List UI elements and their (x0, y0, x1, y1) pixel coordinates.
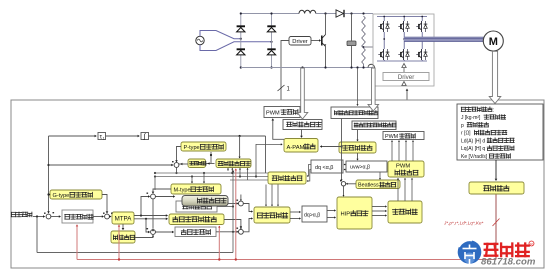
transistor Q3b (403, 49, 405, 60)
wire AC source to bridge (taper bus) (200, 31, 241, 39)
block HIP modulation (337, 197, 372, 229)
watermark logo circle (458, 240, 482, 264)
svg-text:A-PAM: A-PAM (287, 145, 305, 151)
resistor R1 R2 divider (362, 16, 366, 64)
block low pass filter (268, 172, 306, 184)
block PWM phase shift compensation (388, 161, 424, 177)
node beat sum (341, 182, 345, 186)
block DC bus current detection (352, 121, 396, 130)
svg-text:J*,p*,r*,Ld*,Lq*,Ke*: J*,p*,r*,Ld*,Lq*,Ke* (443, 221, 484, 226)
block MTPA (112, 212, 134, 224)
block dq to alpha-beta (302, 206, 327, 222)
arrow rail to DC volt detect (368, 68, 379, 111)
wire M-type to sum4 (153, 189, 171, 193)
svg-text:G-type: G-type (53, 193, 70, 199)
wire MTPA outputs (134, 215, 167, 217)
wire weakening to sum5 (135, 235, 153, 237)
wire uvw to dq (344, 164, 346, 166)
wire MTPA to field weakening (122, 224, 124, 229)
gate signal arrows (402, 64, 406, 68)
block initial phase detect (188, 159, 206, 168)
wire bus up to A-PAM left (256, 144, 282, 176)
block tau filter (98, 133, 106, 140)
svg-text:J [kg·m²]: J [kg·m²] (461, 115, 481, 121)
svg-text:Ld(A) [H] d: Ld(A) [H] d (461, 138, 485, 144)
inductor L1 (299, 10, 316, 13)
diode D5 boost (336, 10, 344, 17)
wires voltage regulator to dq inverse (290, 211, 300, 213)
wire PWM gen to boost driver, bus width 1 (281, 41, 289, 107)
wire dq to LPF (307, 165, 311, 177)
wire speed feedback vertical (48, 136, 50, 213)
transistor Q2b (383, 49, 385, 60)
wire bus down to sum4 col (154, 177, 156, 191)
svg-text:p: p (461, 123, 464, 129)
wire iq* up to sum4 (141, 197, 150, 216)
block dq from alpha-beta (311, 160, 343, 173)
driver U1 (boost) (289, 37, 311, 46)
red wire to speed regulator (76, 225, 78, 260)
wire cmd down to omega bus (36, 217, 38, 253)
svg-text:dq <α,β: dq <α,β (315, 165, 333, 171)
AC source V1 (196, 36, 204, 44)
svg-text:P-type: P-type (184, 145, 200, 151)
wire inverter output bus to motor (404, 37, 484, 42)
svg-text:PWM: PWM (266, 111, 280, 117)
wire L1 to D5 (316, 13, 336, 15)
transistor Q3a (403, 21, 405, 32)
inverter module enclosure (373, 14, 434, 86)
diode D1 (237, 28, 245, 32)
wire uvw to beatless (379, 172, 381, 179)
svg-text:Driver: Driver (398, 74, 415, 81)
capacitor C1 DC bus (351, 14, 353, 41)
wires dq inverse to HIP (327, 210, 335, 212)
wire supply-current-detect to A-PAM (301, 130, 303, 138)
label speed command (11, 212, 32, 217)
svg-text:Beatless: Beatless (358, 182, 379, 188)
wire PWM gen2 up to inverter driver, bus width 6 (406, 90, 408, 132)
block uvw to alpha-beta (346, 161, 387, 172)
wire P-type to sum3 (177, 147, 182, 162)
wire theta line (149, 135, 266, 137)
wire bus to M-type b (203, 173, 205, 183)
current sense bump (368, 64, 375, 67)
block integrator (141, 133, 149, 140)
wires HIP to dead-time comp (372, 206, 386, 208)
wire ff to sum6 (228, 203, 238, 205)
wire theta down (265, 136, 267, 173)
wire sum5 to current reg (156, 231, 174, 233)
arrow rail to supply current detect (297, 68, 308, 119)
diode D2 (267, 28, 275, 32)
svg-text:uvw>α,β: uvw>α,β (350, 165, 370, 171)
red slash (493, 219, 500, 227)
block motor parameter input (457, 104, 543, 160)
block DC bus voltage detection (331, 107, 378, 119)
block supply current detection (283, 120, 322, 130)
wire axis-err to initial-phase (206, 163, 215, 165)
wires bus up into axis error estimator (227, 168, 229, 171)
wire bridge right leg (271, 14, 273, 68)
wire param box to param correction (495, 160, 497, 180)
arrow motor to parameter box (489, 51, 501, 103)
red wire to decoupling control (218, 226, 220, 260)
wire sum4 to sum5 chain (152, 199, 154, 229)
wire driver to Q1 gate (311, 40, 320, 42)
node sum6 ud (239, 201, 244, 206)
bus slash (278, 85, 285, 91)
wire bottom rail (241, 67, 373, 69)
svg-text:MTPA: MTPA (115, 216, 133, 223)
wire omega feedback up (232, 171, 234, 253)
wire A-PAM to PWM1 (273, 119, 284, 139)
block G-type torque control (50, 190, 102, 199)
wire D5 to inverter (345, 13, 374, 15)
wire inverter top rail (377, 16, 427, 18)
wire sum7 to voltreg (243, 219, 252, 232)
wire sum3 down to bus (176, 167, 178, 173)
wire PWM1 output up (to boost driver done above) (280, 105, 282, 107)
block decoupling feedforward control (169, 214, 224, 225)
svg-text:Driver: Driver (292, 39, 308, 45)
wire to tau (49, 135, 97, 137)
block phase current reconstruction (339, 142, 376, 153)
node sum7 uq (239, 229, 244, 234)
block PWM generator 1 (264, 107, 300, 118)
bus slash 6 (404, 108, 411, 114)
wire decouple to sum7 (224, 220, 241, 228)
wire Q1 emitter (325, 47, 327, 68)
watermark brand text (3 red chars) (485, 244, 529, 257)
svg-text:HIP: HIP (341, 212, 351, 218)
wire bridge left leg (240, 14, 242, 68)
block dead-time compensation (388, 201, 422, 223)
wires phase shift comp up to PWM2 (391, 141, 393, 162)
wire beat sum to HIP (343, 186, 345, 196)
feedback bus id iq (155, 172, 268, 174)
motor M (483, 31, 503, 51)
block current regulator (175, 227, 216, 237)
wire to A-PAM right (321, 146, 342, 148)
svg-text:Lq(A) [H] q: Lq(A) [H] q (461, 146, 485, 152)
wire currreg to sum7 (216, 231, 238, 233)
wire theta to axis error estimator (239, 135, 241, 137)
svg-text:M: M (489, 36, 498, 48)
wires dead-time up to phase shift comp (397, 178, 399, 201)
wire to sum3 (49, 164, 174, 166)
node sum2 (105, 214, 110, 219)
block PWM generator 2 (383, 132, 424, 140)
driver U2 (inverter) (383, 73, 429, 81)
wire top rail (241, 13, 299, 15)
node sum1 speed (46, 214, 51, 219)
block A-PAM control (284, 139, 318, 153)
wire tau to integrator (106, 135, 140, 137)
svg-text:dq>α,β: dq>α,β (304, 213, 320, 219)
node sum5 id (151, 230, 156, 235)
wire G-type to sum2 (102, 195, 107, 214)
wire Q1 collector (325, 14, 327, 35)
wire G-type input (49, 194, 51, 196)
diode D4 (267, 51, 275, 55)
wire DC current detect to phase reconstruction (357, 130, 359, 141)
transistor Q2a (383, 21, 385, 32)
block parameter correction (469, 182, 524, 194)
transistor Q4a (421, 21, 423, 32)
block P-type torque control (181, 142, 226, 151)
svg-text::: : (493, 108, 494, 114)
node sum4 iq (151, 194, 156, 199)
wire speed reg to sum2 (93, 216, 103, 218)
wire DC volt detect down to beat sum (341, 119, 343, 181)
svg-text:861718.com: 861718.com (481, 257, 536, 268)
diode D3 (237, 51, 245, 55)
block voltage regulator (254, 207, 290, 223)
wire rail to volt detect (357, 68, 359, 105)
block axis error estimator (216, 159, 251, 168)
block M-type torque control (171, 184, 221, 194)
transistor Q4b (421, 49, 423, 60)
red wire from parameter correction (495, 195, 497, 260)
svg-text:M-type: M-type (174, 187, 191, 193)
block current loop control (176, 201, 217, 212)
svg-text:Ke [V/rad/s]: Ke [V/rad/s] (461, 154, 488, 160)
svg-text:r [Ω]: r [Ω] (461, 131, 471, 137)
svg-text:PWM: PWM (396, 164, 410, 170)
wire id* down to sum5 (146, 219, 150, 232)
wire sum4 out (156, 196, 175, 198)
wire sum3 to initial-phase block (179, 163, 188, 165)
wire speed cmd to sum1 (33, 216, 44, 218)
red feedback bus (77, 259, 496, 261)
wire sum6 to voltreg (243, 204, 252, 212)
wire into sum6 top (240, 195, 242, 201)
red wire to axis error estimator (235, 170, 237, 260)
node sum3 phase (174, 163, 179, 168)
svg-text:PWM: PWM (385, 134, 399, 140)
wire divider tap (364, 46, 374, 48)
wire reconstruction to uvw (357, 153, 359, 160)
wire bus to M-type a (191, 177, 193, 184)
wires LPF down to voltage regulator (265, 185, 267, 206)
wire omega feedback bus (37, 252, 233, 254)
wire inverter bottom rail (377, 60, 427, 62)
wire fwd white box to sum6 col (217, 206, 233, 208)
block speed regulator (62, 210, 93, 223)
red wire to MTPA (118, 225, 120, 260)
wire sum1 to speed reg (51, 216, 60, 218)
block Beatless controller (356, 180, 400, 189)
main control system box (11, 100, 544, 268)
wire beatless to sum (346, 183, 356, 185)
block field weakening control (111, 231, 135, 243)
svg-text:1: 1 (103, 136, 105, 140)
